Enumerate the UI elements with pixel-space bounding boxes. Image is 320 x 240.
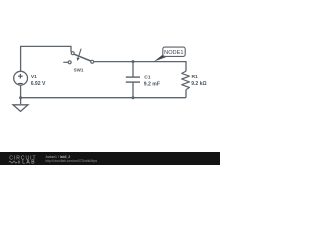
node junction C1 top	[132, 60, 135, 63]
logo capacitor	[18, 161, 19, 164]
svg-text:http://circuitlab.com/cm572hah: http://circuitlab.com/cm572hahk5bps	[45, 159, 97, 163]
svg-text:SW1: SW1	[74, 68, 84, 73]
wire switch common to R1 top	[94, 62, 186, 72]
switch SW1	[63, 49, 93, 64]
resistor R1	[182, 71, 190, 90]
svg-text:9.2 kΩ: 9.2 kΩ	[191, 81, 206, 87]
node junction V1-bottom	[19, 96, 22, 99]
wire C1 bottom	[132, 82, 134, 98]
svg-text:LAB: LAB	[22, 160, 36, 165]
svg-text:R1: R1	[192, 74, 199, 80]
logo resistor zigzag	[9, 161, 17, 163]
wire top-left from V1 to switch	[21, 46, 71, 71]
voltage source V1	[14, 71, 28, 85]
wire C1 top	[132, 62, 134, 78]
wire R1 bottom	[185, 90, 187, 98]
wire V1 bottom to ground junction	[20, 85, 22, 98]
ground	[13, 98, 28, 112]
svg-text:V1: V1	[31, 74, 37, 80]
svg-text:C1: C1	[144, 74, 151, 80]
node junction C1 bottom	[132, 96, 135, 99]
footer bar	[0, 152, 220, 165]
node flag NODE1	[154, 47, 185, 61]
capacitor C1	[126, 77, 140, 82]
svg-text:NODE1: NODE1	[164, 50, 183, 56]
svg-text:9.2 mF: 9.2 mF	[144, 81, 160, 87]
svg-text:6.92 V: 6.92 V	[31, 81, 46, 87]
wire bottom rail	[21, 97, 186, 99]
